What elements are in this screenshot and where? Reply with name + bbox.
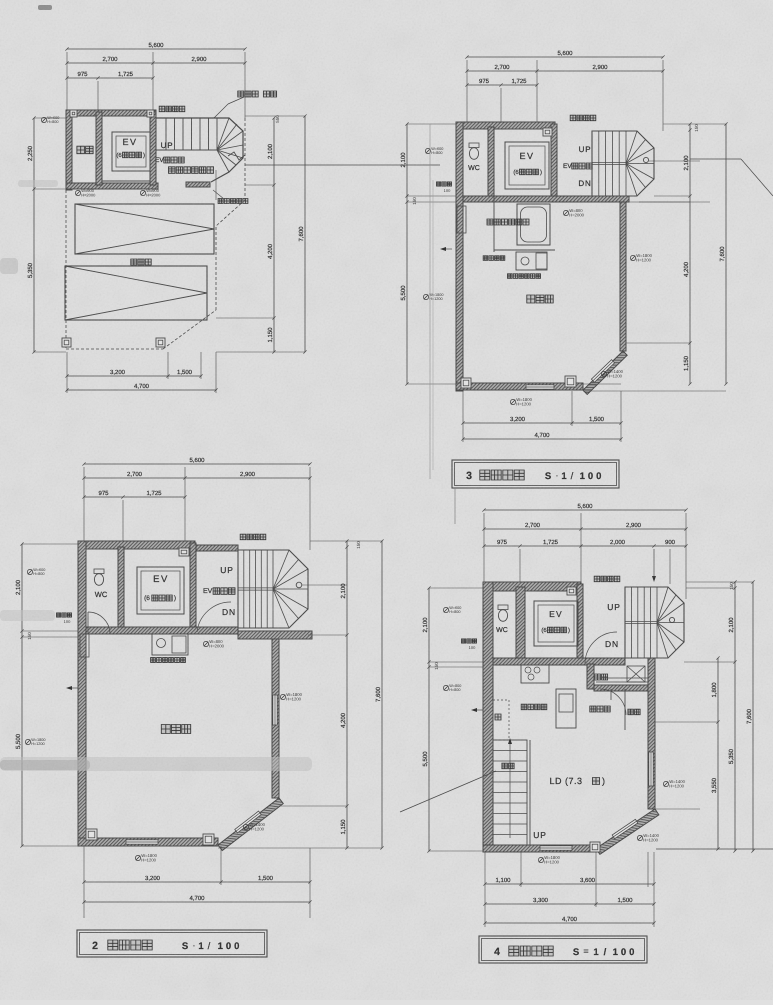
- 3F EV shaft top window box: [543, 128, 552, 136]
- 2F right dimension 7,600: [381, 541, 383, 848]
- 4F diagonal leader line lower left: [400, 771, 496, 812]
- 3F right dimension 7,600: [725, 124, 727, 384]
- 2F plan group: [15, 457, 383, 957]
- 4F internal staircase: [493, 740, 527, 845]
- 3F elevator car: [505, 142, 549, 189]
- 2F chamfer window: [235, 811, 261, 833]
- parking space 1: [75, 204, 214, 254]
- 4F right dimension 1,800 / 3,550: [717, 658, 719, 849]
- 2F dimension 2,700 / 2,900: [84, 477, 310, 479]
- 4F kitchen dashed counter: [493, 700, 509, 740]
- 1F entrance door hatch: [186, 182, 210, 187]
- 4F window annotation right W=1400: [663, 781, 668, 786]
- 3F dimension 5,600: [467, 56, 663, 58]
- 3F plan group: [400, 50, 773, 488]
- 2F right extension lines: [310, 540, 382, 542]
- 2F wall WC/EV: [118, 547, 124, 627]
- 2F corner box left: [86, 829, 97, 840]
- 1F right extension lines: [245, 115, 305, 117]
- 3F right dimension 150/2,100/4,200/1,150: [689, 124, 691, 384]
- 2F dimension 975 / 1,725: [84, 496, 185, 498]
- 3F bottom window: [526, 385, 554, 389]
- 3F drain circle on stair: [643, 157, 648, 162]
- 1F dimension extension lines: [66, 52, 68, 110]
- 3F left window annotation W=600: [425, 148, 430, 153]
- outdoor stairs 1F: [156, 118, 243, 182]
- 4F left window annotation W=600 top: [443, 607, 448, 612]
- 2F right dimension 150/2,100/4,200/1,150: [346, 541, 348, 848]
- 4F right wall: [648, 658, 655, 809]
- 4F hall label: [590, 706, 596, 712]
- 1F dimension 2,700 / 2,900: [67, 62, 245, 64]
- 1F dimension 4,700: [67, 389, 216, 391]
- 4F dimension 3,300 / 1,500: [485, 903, 654, 905]
- 4F chamfer wall: [596, 809, 659, 854]
- 2F dimension 3,200 / 1,500: [84, 881, 310, 883]
- 2F left window arrow: [66, 686, 72, 690]
- 4F corner box: [590, 842, 600, 852]
- 2F corner box right: [203, 834, 214, 845]
- window annotation W=900 H=2000 left: [75, 190, 80, 195]
- 1F wall between storage and EV shaft: [96, 112, 102, 185]
- 3F floor band below EV (150): [463, 196, 629, 202]
- 2F left window annotation W=600: [27, 569, 32, 574]
- 2F EV shaft top window box: [179, 548, 189, 556]
- 4F right dimension 150/2,100/5,350: [734, 582, 736, 851]
- 3F window annotation W=800 H=2000: [563, 210, 568, 215]
- 1F dimension 975 / 1,725: [67, 77, 153, 79]
- 4F stair closet label: [502, 763, 508, 769]
- window annotation W=900 H=2000 mid: [140, 190, 145, 195]
- 2F bottom window: [126, 840, 158, 844]
- 1F right dimension 7,600: [304, 116, 306, 352]
- 4F dimension 1,100 / 3,600: [485, 883, 654, 885]
- 3F right extension lines: [663, 123, 726, 125]
- 1F top wall: [66, 110, 156, 116]
- 3F wall WC/EV: [488, 127, 494, 196]
- 4F EV right wall: [577, 584, 583, 658]
- 1F bottom wall: [66, 183, 158, 189]
- 4F dimension 4,700: [485, 922, 654, 924]
- 4F kitchen stove: [521, 665, 549, 683]
- 4F entrance walls: [587, 664, 594, 689]
- 1F top wall window boxes: [70, 110, 77, 117]
- 1F dimension 5,600: [67, 48, 245, 50]
- under-stairs storage note: [238, 91, 244, 97]
- 4F arrow extension at 2,000/900: [653, 549, 655, 580]
- 3F left wall: [456, 122, 463, 391]
- 4F kitchen label (katakana): [521, 704, 527, 710]
- 2F top wall: [78, 541, 195, 549]
- 3F air inlet note: [437, 182, 441, 186]
- 2F chamfer wall: [218, 798, 283, 851]
- 3F stair drain leader: [639, 201, 710, 203]
- 3F window annotation chamfer W=1400: [601, 371, 606, 376]
- 2F title box: 2F floor plan S=1/100: [77, 930, 267, 957]
- mailbox label: [218, 199, 223, 204]
- 1F right dimension 150/2,100/4,200/1,150: [273, 118, 275, 352]
- 2F WC toilet: [94, 569, 104, 574]
- 4F left window arrow: [471, 708, 477, 712]
- 3F left dimension 2,100/150/5,500: [406, 124, 408, 384]
- 4F closet label: [628, 709, 634, 715]
- 2F left dimension 2,100/150/5,500: [21, 544, 23, 846]
- 4F drain circle: [669, 617, 674, 622]
- 3F corner box right: [565, 376, 576, 387]
- bathtub 3F: [517, 204, 550, 245]
- 2F right wall: [272, 639, 279, 798]
- 3F left window arrow: [440, 247, 446, 251]
- scan speck top left: [38, 5, 52, 10]
- 4F window annotation bottom W=1800: [538, 857, 543, 862]
- 2F air inlet note: [57, 613, 61, 617]
- 3F dimension 3,200 / 1,500: [463, 422, 621, 424]
- scan smudge band across 2F office: [0, 757, 312, 771]
- 3F top wall: [456, 122, 555, 129]
- 3F corner box left: [461, 378, 471, 388]
- 3F right wall: [620, 202, 626, 351]
- outdoor stairs label: [159, 106, 165, 112]
- storage room label (kanji): [77, 146, 85, 154]
- scan smudge left margin mid: [0, 258, 18, 274]
- scan smudge left margin upper: [18, 180, 58, 187]
- 3F EV shaft right wall: [551, 124, 557, 196]
- 4F kitchen sink: [556, 689, 576, 728]
- 3F outdoor stairs label: [570, 115, 576, 121]
- 4F bottom window: [540, 846, 572, 850]
- 2F left annotation W=1800: [25, 739, 30, 744]
- scan artifact: vertical line below 3F title: [454, 488, 456, 524]
- 4F window annotation chamfer W=1400: [637, 835, 642, 840]
- 4F outdoor stairs label: [594, 576, 600, 582]
- 4F plan group: [400, 503, 773, 963]
- 2F office room label: [161, 725, 170, 734]
- 4F entrance room label: [594, 674, 600, 680]
- 4F left window annotation W=800: [443, 685, 448, 690]
- 3F duct shaft on left wall: [457, 206, 466, 233]
- scan smudge left margin small: [0, 610, 55, 621]
- 2F hall door arc: [197, 602, 231, 632]
- 2F floor band below EV: [86, 627, 238, 634]
- 4F elevator car: [534, 601, 578, 646]
- unit bath label (katakana): [487, 219, 493, 225]
- 4F left dimension 2,100/150/5,500: [428, 588, 430, 851]
- 2F stair bottom band: [238, 631, 312, 639]
- 3F dimension 2,700 / 2,900: [467, 70, 663, 72]
- 3F outdoor stairs: [592, 131, 654, 196]
- 2F window annotation bottom W=1800: [135, 855, 140, 860]
- 4F air inlet note: [462, 639, 466, 643]
- 1F elevator shaft walls: [150, 112, 156, 185]
- 4F band below EV: [493, 658, 625, 665]
- 4F left wall: [483, 582, 493, 852]
- 3F top right leader line: [690, 158, 741, 160]
- 2F right wall window: [273, 695, 277, 725]
- 1F left dimension 2,250 / 5,350: [33, 118, 35, 352]
- 2F window annotation right W=1800: [280, 694, 285, 699]
- 4F shaft with X mark: [627, 666, 645, 682]
- 2F elevator car: [137, 567, 184, 614]
- 3F office room label: [527, 295, 535, 303]
- 3F chamfer wall: [583, 351, 627, 394]
- 4F right dimension 7,600: [752, 582, 754, 851]
- 3F chamfer window: [591, 360, 614, 383]
- 2F WC door arc: [88, 612, 110, 634]
- 1F dashed site boundary right: [244, 118, 246, 200]
- 1F window annotation left top: [41, 117, 46, 122]
- 2F annotation W=800 H=2000: [203, 641, 208, 646]
- 2F dimension 5,600: [84, 463, 310, 465]
- 4F WC toilet: [498, 605, 508, 610]
- 3F window annotation right W=1800: [630, 255, 635, 260]
- scan artifact: long vertical extension line between columns: [429, 124, 431, 479]
- 2F mini kitchen: [152, 634, 188, 655]
- 4F entrance door arc: [600, 689, 626, 715]
- 2F duct shaft left: [80, 634, 89, 657]
- 3F title box: 3F floor plan S=1/100: [452, 460, 619, 488]
- 4F top wall: [483, 582, 581, 591]
- 4F hall door arc: [585, 632, 617, 663]
- 4F fridge label: [495, 714, 501, 720]
- 2F bottom wall: [78, 838, 218, 846]
- 4F chamfer window: [612, 819, 638, 838]
- 1F left wall: [66, 110, 72, 190]
- 4F title box: 4F floor plan S=1/100: [479, 936, 647, 963]
- elevator EV car: [112, 132, 150, 171]
- parking corner post left: [62, 338, 71, 347]
- 4F EV shaft top window box: [567, 587, 576, 595]
- 3F bottom wall: [456, 383, 583, 390]
- 3F dimension 4,700: [463, 438, 621, 440]
- unit bath room 3F: [493, 196, 495, 252]
- 4F dimension 5,600: [484, 509, 686, 511]
- parking lot label: [131, 259, 137, 265]
- 3F dimension 975 / 1,725: [467, 84, 537, 86]
- 2F dimension 4,700: [84, 901, 310, 903]
- 2F EV shaft right wall: [190, 543, 196, 627]
- 2F outdoor stairs label: [240, 534, 246, 540]
- 4F wall WC/EV: [516, 587, 525, 658]
- 3F mini kitchen label: [508, 274, 513, 279]
- parking corner post right: [156, 338, 165, 347]
- 2F window annotation chamfer W=1400: [243, 824, 248, 829]
- parking dashed boundary: [65, 190, 67, 349]
- 4F dimension 2,700 / 2,900: [484, 528, 686, 530]
- 3F window annotation bottom W=1800: [510, 399, 515, 404]
- entrance label (katakana): [169, 167, 176, 174]
- 4F right wall window: [649, 752, 653, 786]
- 4F right extension lines: [686, 581, 753, 583]
- 2F outdoor stairs: [238, 550, 308, 628]
- long reference line to 3F plan: [245, 164, 440, 166]
- 3F mini kitchen: [516, 252, 547, 270]
- 4F entrance step lines: [596, 677, 648, 679]
- 1F plan group: [27, 42, 440, 393]
- 3F left annotation W=1800: [423, 294, 428, 299]
- WC toilet 3F: [469, 143, 479, 148]
- parking space 2: [65, 266, 207, 320]
- 1F dimension 3,200 / 1,500: [67, 375, 201, 377]
- 2F mini kitchen label: [151, 658, 156, 663]
- 4F dimension 975/1,725/2,000/900: [484, 545, 686, 547]
- 2F drain circle: [296, 582, 302, 588]
- 4F bottom wall: [483, 845, 596, 852]
- waterproof pan label: [483, 256, 488, 260]
- 4F outdoor stairs: [625, 587, 684, 658]
- 2F left wall: [78, 541, 86, 846]
